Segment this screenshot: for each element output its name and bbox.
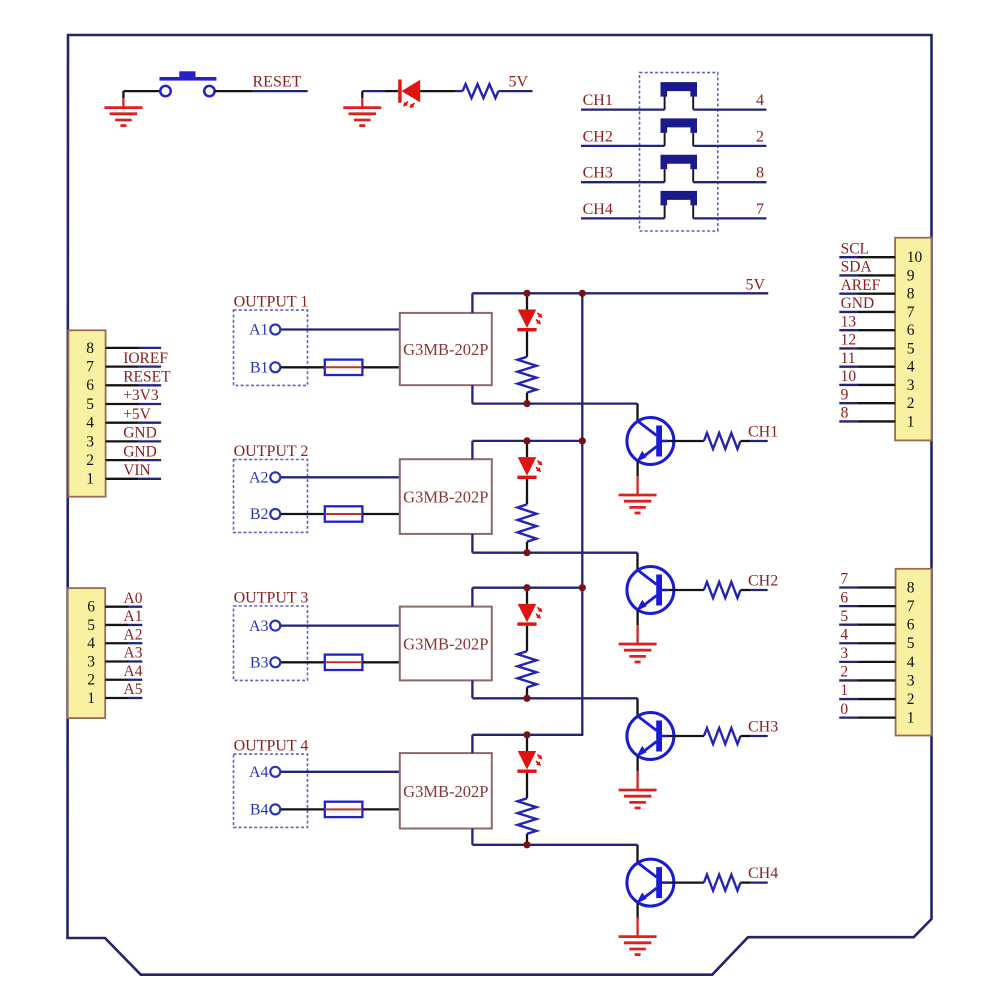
resistor R3 — [518, 651, 537, 687]
wire CH3 to jumper JP3 — [581, 181, 665, 183]
node rail3 LED junction — [523, 584, 530, 591]
svg-text:6: 6 — [87, 599, 95, 616]
wire bottom rail to transistor Q2 collector — [636, 553, 638, 570]
resistor R13 (base) — [704, 728, 741, 744]
net label 2 — [756, 128, 764, 145]
svg-text:0: 0 — [840, 701, 848, 718]
wire relay U2 bottom stub — [471, 534, 473, 553]
wire rail to LED D2 — [526, 441, 528, 457]
wire A4 to relay U4 — [281, 771, 400, 773]
svg-text:GND: GND — [841, 295, 875, 312]
connector J3 pin 3 — [839, 377, 915, 394]
svg-text:B3: B3 — [250, 655, 269, 672]
net label 4 — [756, 92, 764, 109]
svg-text:GND: GND — [123, 443, 157, 460]
wire transistor Q4 emitter — [636, 903, 638, 918]
net label A3 — [124, 645, 143, 662]
svg-text:5: 5 — [840, 608, 848, 625]
svg-text:4: 4 — [756, 92, 764, 109]
svg-text:7: 7 — [756, 201, 764, 218]
connector J4 pin 5 — [839, 635, 915, 652]
net label GND — [841, 295, 875, 312]
wire resistor R4 to bottom rail — [526, 834, 528, 845]
net label OUTPUT 2 — [234, 443, 309, 460]
wire switch to RESET net — [215, 90, 308, 92]
wire A2 to relay U2 — [281, 476, 400, 478]
wire relay U2 top stub — [471, 441, 473, 459]
wire fuse F1 to relay U1 — [362, 366, 399, 368]
node B3 — [250, 655, 280, 672]
relay U1 G3MB-202P — [400, 313, 492, 385]
wire resistor to CH4 — [741, 881, 768, 883]
wire row 4 top rail — [472, 734, 583, 736]
wire row 3 top rail — [472, 587, 583, 589]
connector J1 body — [68, 330, 105, 496]
connector J3 pin 9 — [839, 267, 915, 284]
ground GND (Q1) — [619, 476, 657, 513]
relay U4 G3MB-202P — [400, 753, 492, 828]
svg-text:CH4: CH4 — [583, 201, 613, 218]
wire rail to LED D1 — [526, 293, 528, 309]
svg-text:A3: A3 — [124, 645, 143, 662]
net label RESET — [253, 74, 302, 91]
svg-text:A5: A5 — [124, 681, 143, 698]
node rail2 5V junction — [579, 437, 586, 444]
jumper JP4 — [661, 191, 698, 219]
relay U3 G3MB-202P — [400, 607, 492, 681]
wire relay U4 top stub — [471, 735, 473, 753]
wire row 1 bottom rail — [472, 402, 637, 404]
svg-text:2: 2 — [840, 664, 848, 681]
wire fuse F4 to relay U4 — [362, 808, 399, 810]
svg-text:5: 5 — [86, 396, 94, 413]
wire transistor Q1 base to resistor — [662, 440, 704, 443]
net label VIN — [123, 462, 151, 479]
ground GND (Q3) — [619, 771, 657, 808]
wire resistor R2 to bottom rail — [526, 542, 528, 553]
svg-text:3: 3 — [840, 645, 848, 662]
wire A3 to relay U3 — [281, 624, 400, 626]
connector J1 pin 3 — [86, 433, 161, 450]
svg-text:IOREF: IOREF — [123, 350, 168, 367]
wire ground to LED D5 — [362, 90, 398, 92]
svg-text:OUTPUT 3: OUTPUT 3 — [234, 590, 309, 607]
svg-text:CH2: CH2 — [583, 128, 613, 145]
wire rail to LED D4 — [526, 735, 528, 751]
connector J1 pin 2 — [86, 452, 161, 469]
connector J1 pin 8 — [86, 340, 161, 357]
connector J4 pin 3 — [839, 672, 915, 689]
wire jumper JP3 to pin 8 — [693, 181, 766, 183]
svg-text:+3V3: +3V3 — [123, 387, 159, 404]
svg-text:G3MB-202P: G3MB-202P — [403, 488, 488, 507]
svg-text:RESET: RESET — [253, 74, 302, 91]
svg-text:4: 4 — [840, 626, 848, 643]
net label GND — [123, 443, 157, 460]
jumper JP1 — [661, 82, 698, 110]
node row3 bottom junction — [523, 695, 530, 702]
wire resistor R3 to bottom rail — [526, 687, 528, 698]
svg-text:13: 13 — [841, 313, 857, 330]
svg-text:B4: B4 — [250, 802, 269, 819]
ground GND (Q2) — [619, 625, 657, 662]
fuse F2 — [325, 506, 363, 521]
jumper block dashed outline — [640, 73, 718, 231]
connector J3 pin 5 — [839, 340, 915, 357]
fuse F4 — [325, 802, 363, 817]
wire fuse F3 to relay U3 — [362, 661, 399, 663]
connector J4 pin 4 — [839, 654, 915, 671]
svg-text:1: 1 — [907, 710, 915, 727]
resistor R12 (base) — [704, 582, 741, 598]
node A4 — [249, 764, 280, 781]
resistor R5 — [463, 84, 499, 98]
svg-text:7: 7 — [840, 571, 848, 588]
svg-text:CH4: CH4 — [748, 865, 778, 882]
svg-text:RESET: RESET — [123, 369, 171, 386]
net label 9 — [841, 386, 849, 403]
svg-text:5: 5 — [907, 635, 915, 652]
svg-text:10: 10 — [907, 249, 923, 266]
net label 1 — [840, 682, 848, 699]
net label CH3 (jumper row) — [583, 165, 613, 182]
svg-text:A2: A2 — [249, 470, 269, 487]
node rail1 5V junction — [579, 290, 586, 297]
wire B4 to fuse F4 — [281, 808, 325, 810]
output block 1 dashed outline — [234, 310, 308, 385]
jumper JP2 — [661, 118, 698, 145]
connector J3 pin 8 — [839, 286, 915, 303]
resistor R4 — [518, 798, 537, 834]
svg-text:8: 8 — [907, 286, 915, 303]
connector J1 pin 7 — [86, 359, 161, 376]
svg-text:5: 5 — [907, 340, 915, 357]
connector J3 pin 7 — [839, 304, 915, 321]
svg-text:1: 1 — [87, 690, 95, 707]
svg-text:7: 7 — [86, 359, 94, 376]
net label 3 — [840, 645, 848, 662]
wire fuse F2 to relay U2 — [362, 513, 399, 515]
node B1 — [250, 360, 280, 377]
connector J2 pin 5 — [87, 617, 142, 634]
svg-text:8: 8 — [841, 405, 849, 422]
wire transistor Q4 base to resistor — [662, 881, 704, 884]
transistor Q4 — [627, 859, 674, 906]
svg-text:2: 2 — [86, 452, 94, 469]
svg-text:7: 7 — [907, 598, 915, 615]
node rail2 LED junction — [523, 437, 530, 444]
wire 5V vertical rail — [581, 293, 583, 735]
net label A4 — [124, 663, 143, 680]
connector J3 pin 1 — [839, 413, 914, 430]
net label 4 — [840, 626, 848, 643]
svg-text:8: 8 — [756, 165, 764, 182]
output block 2 dashed outline — [234, 460, 308, 533]
svg-text:8: 8 — [907, 579, 915, 596]
wire B1 to fuse F1 — [281, 366, 325, 368]
connector J4 body — [896, 569, 932, 736]
svg-text:G3MB-202P: G3MB-202P — [403, 782, 488, 801]
svg-text:2: 2 — [907, 395, 915, 412]
net label A2 — [124, 626, 143, 643]
wire jumper JP4 to pin 7 — [693, 217, 766, 219]
svg-text:2: 2 — [756, 128, 764, 145]
LED D2 — [517, 457, 542, 479]
svg-text:2: 2 — [907, 691, 915, 708]
connector J3 body — [895, 238, 931, 441]
wire transistor Q3 emitter — [636, 757, 638, 772]
node A3 — [249, 618, 280, 635]
svg-text:9: 9 — [841, 386, 849, 403]
wire CH4 to jumper JP4 — [581, 217, 665, 219]
wire bottom rail to transistor Q3 collector — [636, 698, 638, 716]
wire relay U1 bottom stub — [471, 385, 473, 403]
svg-text:11: 11 — [841, 350, 856, 367]
connector J3 pin 6 — [839, 322, 915, 339]
wire LED to resistor R5 — [420, 90, 462, 92]
wire resistor to CH3 — [741, 735, 768, 737]
svg-text:5V: 5V — [746, 276, 766, 293]
wire row 3 bottom rail — [472, 697, 637, 699]
svg-text:A1: A1 — [249, 322, 269, 339]
svg-text:4: 4 — [87, 635, 95, 652]
net label 5 — [840, 608, 848, 625]
connector J4 pin 6 — [839, 617, 915, 634]
net label A1 — [124, 608, 143, 625]
wire CH2 to jumper JP2 — [581, 145, 665, 147]
LED D5 power indicator — [398, 80, 420, 109]
svg-text:10: 10 — [841, 368, 857, 385]
net label 10 — [841, 368, 857, 385]
node row4 bottom junction — [523, 841, 530, 848]
node A1 — [249, 322, 280, 339]
net label OUTPUT 1 — [234, 293, 309, 310]
connector J3 pin 2 — [839, 395, 914, 412]
connector J2 pin 1 — [87, 690, 142, 707]
wire transistor Q2 base to resistor — [662, 589, 704, 592]
resistor R14 (base) — [704, 875, 741, 891]
svg-text:6: 6 — [840, 589, 848, 606]
node B4 — [250, 802, 280, 819]
svg-text:3: 3 — [86, 433, 94, 450]
wire B3 to fuse F3 — [281, 661, 325, 663]
svg-text:4: 4 — [86, 415, 94, 432]
pushbutton S1 RESET — [160, 71, 217, 96]
svg-text:CH3: CH3 — [583, 165, 613, 182]
node A2 — [249, 470, 280, 487]
node rail4 LED junction — [523, 731, 530, 738]
wire A1 to relay U1 — [281, 328, 400, 330]
wire resistor R1 to bottom rail — [526, 393, 528, 404]
connector J2 body — [68, 588, 106, 718]
wire relay U3 bottom stub — [471, 680, 473, 698]
svg-text:1: 1 — [907, 413, 915, 430]
connector J4 pin 2 — [839, 691, 914, 708]
wire resistor to 5V — [498, 90, 532, 92]
output block 3 dashed outline — [234, 606, 308, 680]
svg-text:OUTPUT 1: OUTPUT 1 — [234, 293, 309, 310]
resistor R11 (base) — [704, 433, 741, 449]
wire LED D1 to resistor R1 — [526, 331, 528, 356]
net label CH1 (jumper row) — [583, 92, 613, 109]
wire CH1 to jumper JP1 — [581, 108, 665, 110]
wire bottom rail to transistor Q1 collector — [636, 404, 638, 421]
svg-text:1: 1 — [840, 682, 848, 699]
net label +3V3 — [123, 387, 159, 404]
node row2 bottom junction — [523, 549, 530, 556]
svg-text:12: 12 — [841, 332, 857, 349]
output block 4 dashed outline — [234, 754, 308, 827]
wire transistor Q1 emitter — [636, 462, 638, 477]
net label CH1 — [748, 424, 778, 441]
wire ground to switch S1 — [123, 90, 160, 92]
ground GND2 (power LED) — [343, 91, 381, 126]
svg-text:4: 4 — [907, 359, 915, 376]
svg-text:A0: A0 — [124, 590, 143, 607]
connector J1 pin 1 — [86, 471, 161, 488]
transistor Q1 — [627, 418, 674, 465]
net label RESET — [123, 369, 171, 386]
svg-text:6: 6 — [907, 617, 915, 634]
net label A5 — [124, 681, 143, 698]
svg-text:6: 6 — [86, 377, 94, 394]
node row1 bottom junction — [523, 400, 530, 407]
net label OUTPUT 3 — [234, 590, 309, 607]
net label CH2 — [748, 573, 778, 590]
connector J4 pin 8 — [839, 579, 915, 596]
net label CH3 — [748, 719, 778, 736]
wire LED D4 to resistor R4 — [526, 773, 528, 798]
svg-text:1: 1 — [86, 471, 94, 488]
net label 2 — [840, 664, 848, 681]
net label 0 — [840, 701, 848, 718]
svg-text:VIN: VIN — [123, 462, 151, 479]
wire relay U4 bottom stub — [471, 829, 473, 845]
connector J1 pin 4 — [86, 415, 161, 432]
svg-text:A4: A4 — [124, 663, 143, 680]
net label CH2 (jumper row) — [583, 128, 613, 145]
wire jumper JP2 to pin 2 — [693, 145, 766, 147]
net label AREF — [841, 277, 881, 294]
wire row 4 bottom rail — [472, 844, 637, 846]
wire transistor Q3 base to resistor — [662, 735, 704, 738]
net label A0 — [124, 590, 143, 607]
wire 5V top rail — [472, 292, 768, 294]
net label OUTPUT 4 — [234, 738, 309, 755]
wire bottom rail to transistor Q4 collector — [636, 845, 638, 863]
svg-text:9: 9 — [907, 267, 915, 284]
wire row 2 bottom rail — [472, 552, 637, 554]
node rail3 5V junction — [579, 584, 586, 591]
fuse F3 — [325, 655, 363, 670]
svg-text:G3MB-202P: G3MB-202P — [403, 635, 488, 654]
wire relay U1 top stub — [471, 293, 473, 313]
transistor Q3 — [627, 713, 674, 760]
svg-text:A4: A4 — [249, 764, 269, 781]
svg-text:SCL: SCL — [841, 240, 869, 257]
net label 8 — [841, 405, 849, 422]
wire resistor to CH2 — [741, 589, 768, 591]
wire resistor to CH1 — [741, 440, 768, 442]
net label 6 — [840, 589, 848, 606]
fuse F1 — [325, 360, 363, 375]
LED D3 — [517, 604, 542, 626]
wire LED D3 to resistor R3 — [526, 626, 528, 651]
connector J1 pin 5 — [86, 396, 161, 413]
svg-text:CH3: CH3 — [748, 719, 778, 736]
connector J3 pin 10 — [839, 249, 922, 266]
net label 11 — [841, 350, 856, 367]
svg-text:CH2: CH2 — [748, 573, 778, 590]
svg-text:5V: 5V — [509, 74, 529, 91]
svg-text:B2: B2 — [250, 506, 269, 523]
svg-text:3: 3 — [87, 653, 95, 670]
net label 5V (rail) — [746, 276, 766, 293]
svg-text:A2: A2 — [124, 626, 143, 643]
net label SDA — [841, 259, 873, 276]
svg-text:2: 2 — [87, 672, 95, 689]
svg-text:CH1: CH1 — [583, 92, 613, 109]
net label IOREF — [123, 350, 168, 367]
LED D1 — [517, 310, 542, 332]
wire transistor Q2 emitter — [636, 611, 638, 626]
transistor Q2 — [627, 567, 674, 614]
net label 7 — [840, 571, 848, 588]
node rail1 LED junction — [523, 290, 530, 297]
net label 12 — [841, 332, 857, 349]
svg-text:A1: A1 — [124, 608, 143, 625]
connector J2 pin 4 — [87, 635, 142, 652]
connector J2 pin 2 — [87, 672, 142, 689]
net label 8 — [756, 165, 764, 182]
svg-text:5: 5 — [87, 617, 95, 634]
connector J4 pin 1 — [839, 710, 914, 727]
relay U2 G3MB-202P — [400, 459, 492, 534]
svg-text:B1: B1 — [250, 360, 269, 377]
svg-text:AREF: AREF — [841, 277, 881, 294]
wire jumper JP1 to pin 4 — [693, 108, 766, 110]
svg-text:8: 8 — [86, 340, 94, 357]
net label 5V — [509, 74, 529, 91]
wire B2 to fuse F2 — [281, 513, 325, 515]
net label GND — [123, 425, 157, 442]
svg-text:A3: A3 — [249, 618, 269, 635]
ground GND1 (reset button) — [104, 91, 142, 126]
net label CH4 — [748, 865, 778, 882]
wire row 2 top rail — [472, 440, 583, 442]
net label SCL — [841, 240, 869, 257]
connector J4 pin 7 — [839, 598, 915, 615]
svg-text:7: 7 — [907, 304, 915, 321]
ground GND (Q4) — [619, 918, 657, 955]
net label 7 — [756, 201, 764, 218]
svg-text:4: 4 — [907, 654, 915, 671]
svg-text:G3MB-202P: G3MB-202P — [403, 340, 488, 359]
LED D4 — [517, 751, 542, 773]
svg-text:OUTPUT 2: OUTPUT 2 — [234, 443, 309, 460]
svg-text:GND: GND — [123, 425, 157, 442]
svg-text:3: 3 — [907, 377, 915, 394]
connector J2 pin 6 — [87, 599, 142, 616]
wire LED D2 to resistor R2 — [526, 479, 528, 504]
svg-text:6: 6 — [907, 322, 915, 339]
svg-text:+5V: +5V — [123, 406, 151, 423]
connector J3 pin 4 — [839, 359, 915, 376]
node B2 — [250, 506, 280, 523]
net label +5V — [123, 406, 151, 423]
net label CH4 (jumper row) — [583, 201, 613, 218]
net label 13 — [841, 313, 857, 330]
